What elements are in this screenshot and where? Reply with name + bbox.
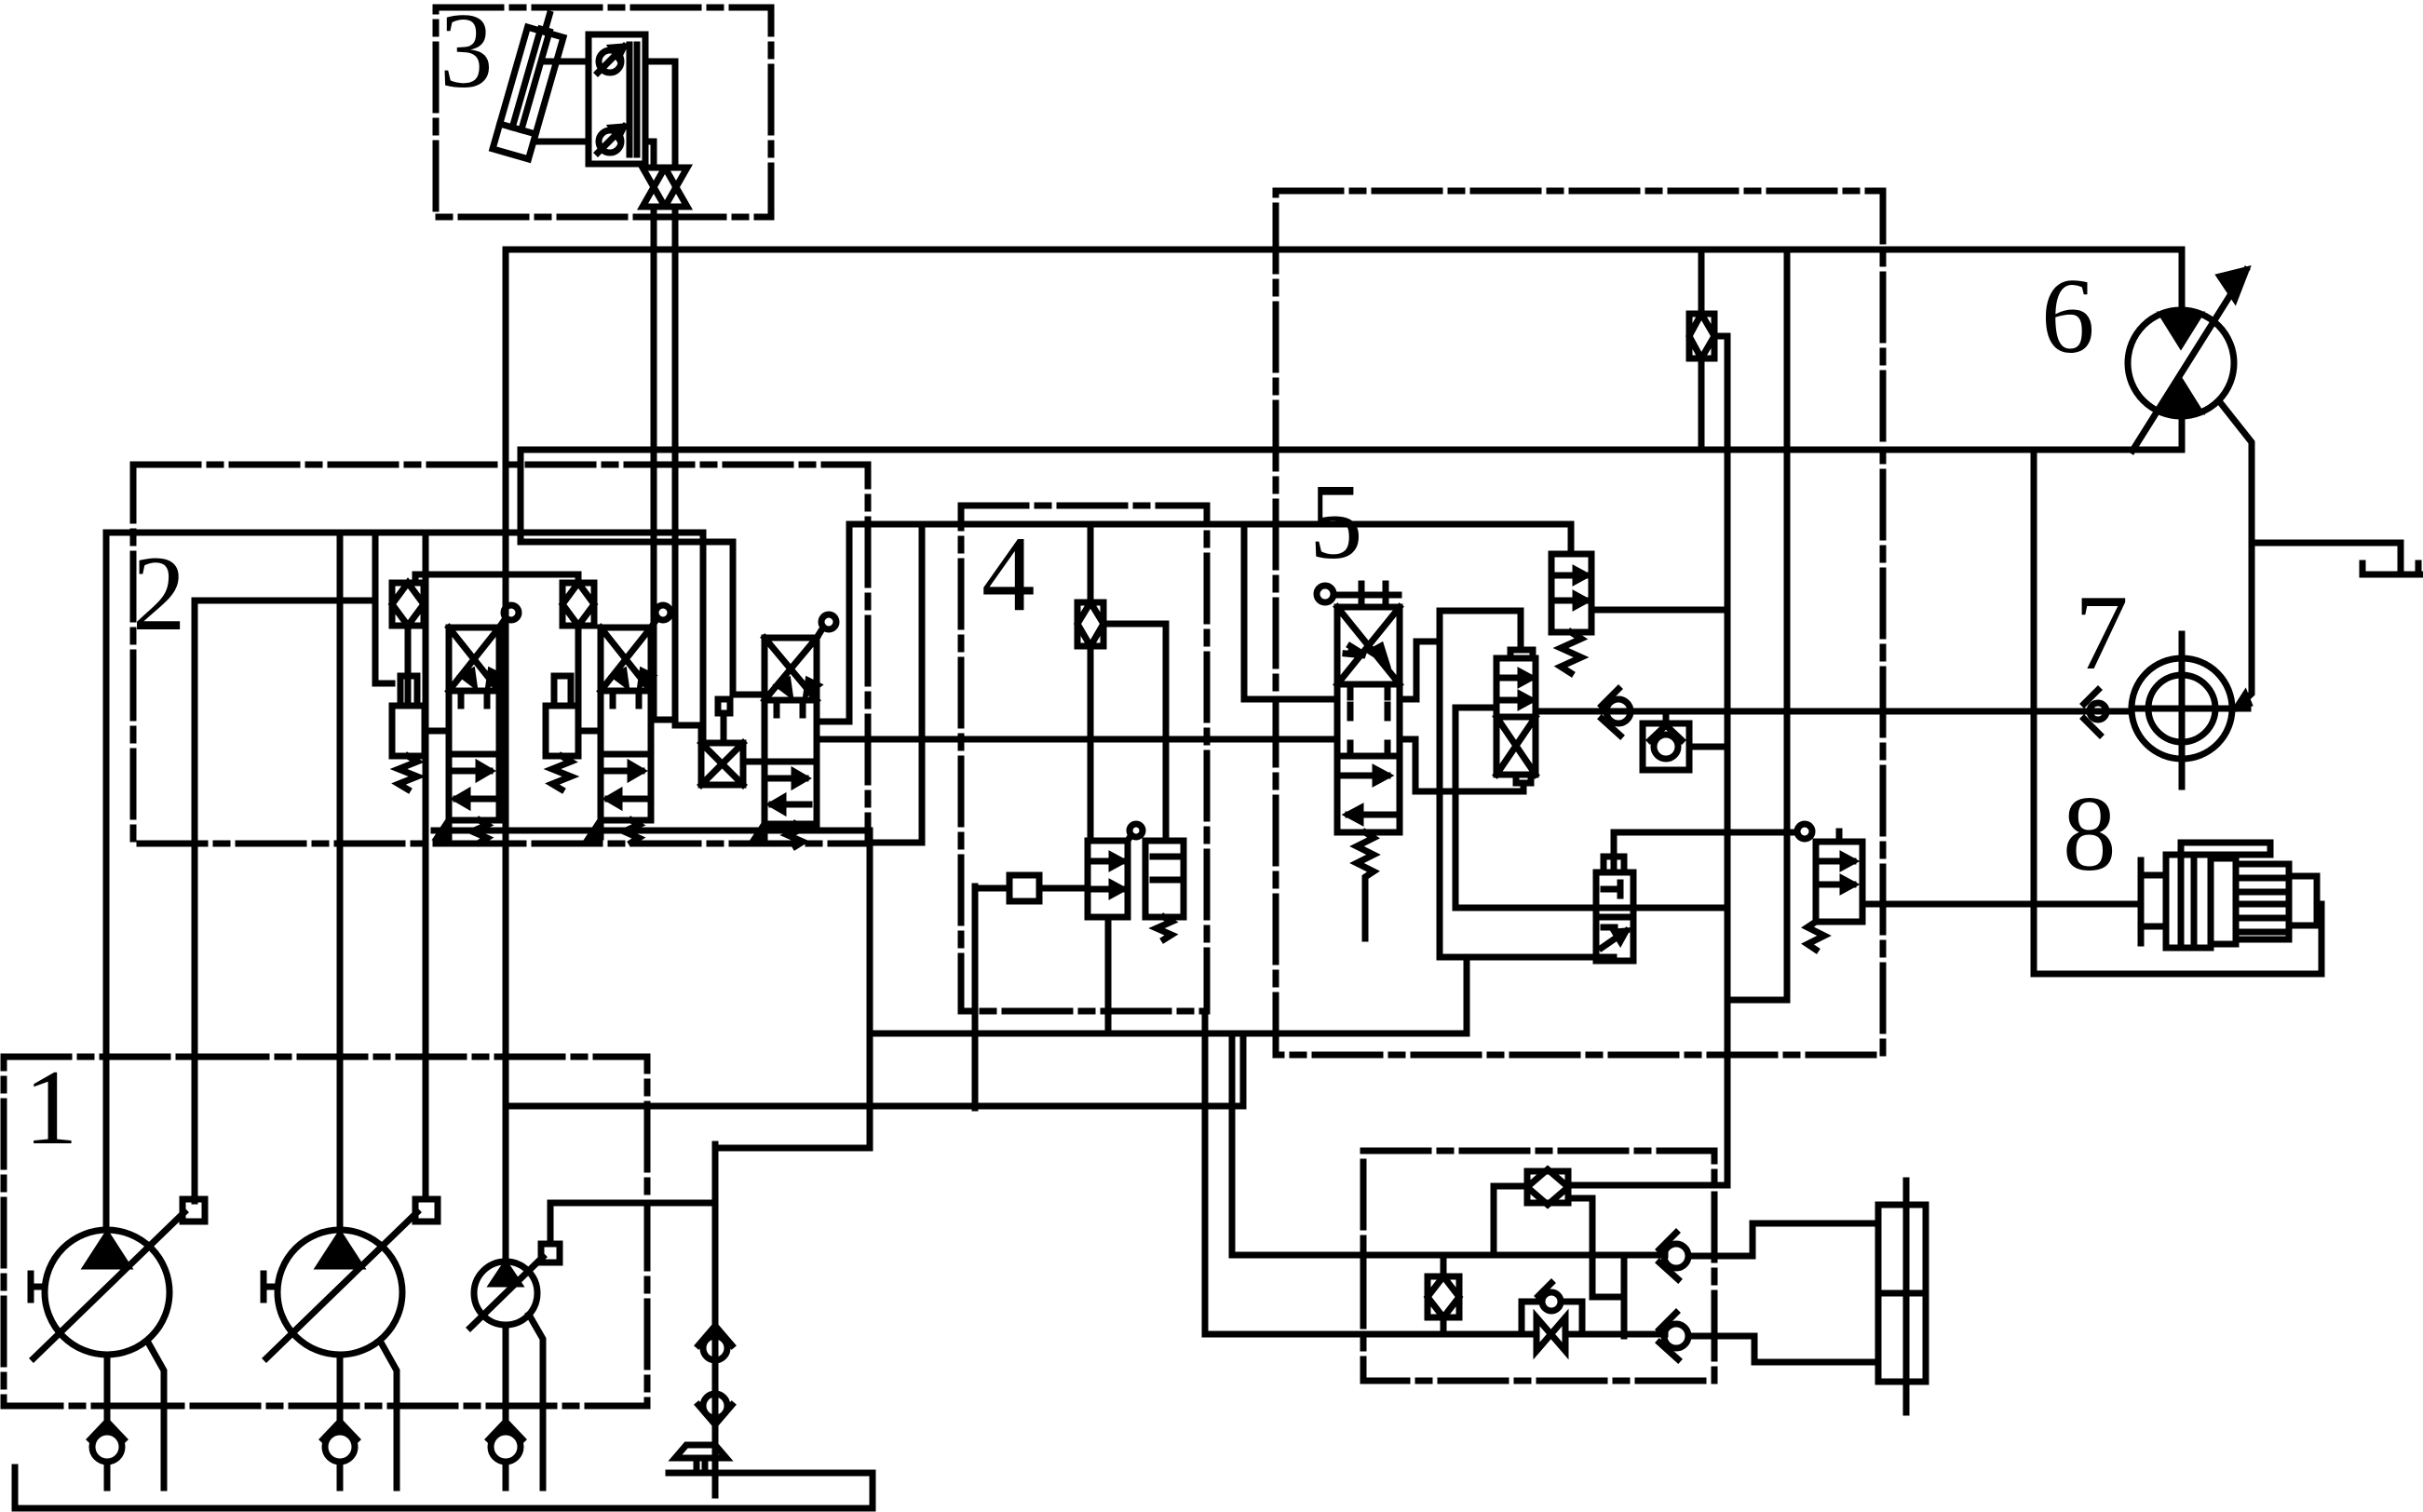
svg-text:7: 7 [2075,574,2129,692]
svg-text:6: 6 [2041,257,2095,375]
svg-text:3: 3 [440,0,494,110]
svg-text:1: 1 [24,1048,78,1167]
svg-text:8: 8 [2063,775,2117,893]
svg-text:2: 2 [132,534,186,653]
svg-text:4: 4 [981,515,1036,633]
